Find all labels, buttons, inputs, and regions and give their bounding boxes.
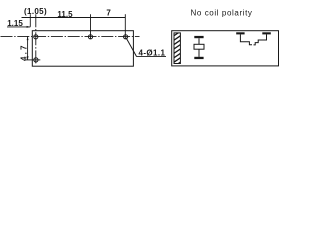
arrow 4.7 top	[27, 36, 29, 40]
pin hole 1	[34, 35, 38, 39]
svg-text:11.5: 11.5	[57, 10, 73, 19]
pin hole 4	[34, 58, 38, 62]
svg-text:7: 7	[106, 9, 111, 18]
core hatched bar	[170, 28, 186, 74]
contact terminal right	[262, 32, 271, 34]
contact blade and NO lead	[254, 34, 267, 45]
relay outline	[32, 31, 133, 66]
coil stem top	[198, 38, 200, 44]
horizontal centerline	[1, 35, 140, 37]
leader line 4-O1.1	[126, 38, 137, 57]
coil stem bottom	[198, 49, 200, 57]
arrow 4.7 bottom	[27, 56, 29, 60]
extension line hole2	[90, 14, 92, 39]
top dimension line	[22, 17, 126, 19]
svg-text:4-Ø1.1: 4-Ø1.1	[138, 48, 165, 57]
coil terminal top	[194, 36, 203, 38]
dimension texts	[7, 7, 165, 61]
svg-text:1.15: 1.15	[7, 19, 23, 28]
svg-text:(1.05): (1.05)	[24, 7, 47, 16]
vertical centerline	[35, 14, 37, 65]
extension line hole3	[124, 14, 126, 39]
schematic box	[172, 31, 279, 66]
leader underline 4-O1.1	[137, 56, 166, 58]
coil box	[194, 44, 204, 49]
contact common lead	[240, 34, 252, 44]
svg-text:No coil polarity: No coil polarity	[190, 9, 252, 18]
4.7 bottom extension	[25, 59, 32, 61]
pin hole 2	[88, 35, 92, 39]
arrow 1.15	[27, 26, 31, 28]
contact terminal left	[236, 32, 244, 34]
1.15 dimension line	[7, 26, 30, 28]
pin hole 3	[124, 35, 128, 39]
4.7 dimension line	[27, 36, 29, 60]
extension tick 1.05 left	[29, 14, 31, 27]
hole 4 center dash	[32, 59, 40, 61]
svg-text:4.7: 4.7	[20, 43, 29, 61]
coil terminal bottom	[194, 57, 203, 59]
